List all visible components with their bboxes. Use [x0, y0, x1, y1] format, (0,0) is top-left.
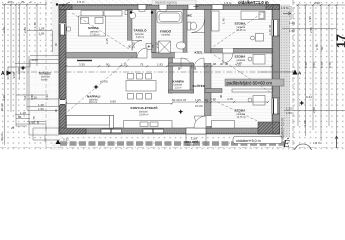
svg-text:28,6 m²: 28,6 m² — [89, 101, 97, 104]
svg-text:60,30: 60,30 — [0, 133, 4, 141]
svg-text:2.40: 2.40 — [304, 62, 308, 68]
svg-text:1.20: 1.20 — [31, 96, 37, 100]
svg-text:6.80: 6.80 — [110, 100, 116, 104]
svg-text:30: 30 — [205, 98, 209, 102]
svg-text:60,20: 60,20 — [0, 103, 4, 111]
svg-text:1,5 %: 1,5 % — [224, 1, 232, 5]
svg-text:1.93: 1.93 — [157, 62, 163, 66]
svg-text:90: 90 — [225, 62, 228, 66]
svg-text:3.70: 3.70 — [2, 27, 6, 33]
svg-text:15×30: 15×30 — [187, 144, 194, 147]
svg-text:burkolat: burkolat — [162, 34, 171, 37]
svg-text:KÖZL.: KÖZL. — [195, 51, 204, 55]
svg-text:SZOBA: SZOBA — [235, 109, 247, 113]
svg-text:1.50: 1.50 — [17, 68, 21, 74]
svg-text:ELŐTÉR: ELŐTÉR — [193, 83, 206, 88]
svg-text:1.30: 1.30 — [45, 94, 49, 100]
svg-text:±0.00: ±0.00 — [195, 104, 203, 108]
svg-text:30: 30 — [220, 62, 223, 66]
svg-text:TÁROLÓ: TÁROLÓ — [134, 28, 148, 33]
svg-text:17,20 m²: 17,20 m² — [90, 34, 100, 37]
svg-text:1.20: 1.20 — [289, 21, 295, 25]
svg-text:90: 90 — [193, 67, 197, 70]
svg-text:2.10: 2.10 — [155, 42, 159, 48]
svg-text:90: 90 — [219, 94, 223, 98]
svg-text:2.70: 2.70 — [315, 44, 319, 50]
svg-text:10,36 m²: 10,36 m² — [237, 29, 247, 32]
svg-text:2.15: 2.15 — [105, 38, 109, 44]
svg-text:1.50: 1.50 — [191, 137, 197, 141]
svg-text:25: 25 — [21, 0, 24, 4]
svg-text:padlásfeljáró 60×60 cm: padlásfeljáró 60×60 cm — [227, 80, 273, 85]
svg-text:90: 90 — [106, 62, 110, 66]
svg-text:4.15: 4.15 — [227, 97, 233, 101]
svg-text:oldalkert=1,0 m: oldalkert=1,0 m — [238, 0, 269, 5]
svg-text:bejárati egység: bejárati egység — [155, 1, 177, 5]
svg-text:1.56: 1.56 — [39, 32, 45, 36]
svg-text:SZOBA: SZOBA — [235, 55, 247, 59]
svg-text:2.80: 2.80 — [23, 27, 27, 33]
svg-text:90: 90 — [268, 24, 272, 28]
svg-text:1.50: 1.50 — [286, 111, 292, 115]
svg-text:75: 75 — [140, 62, 144, 66]
svg-text:8.50: 8.50 — [312, 62, 316, 68]
svg-text:KONYHA-ÉTKEZŐ: KONYHA-ÉTKEZŐ — [131, 105, 159, 110]
svg-text:2.40: 2.40 — [268, 29, 272, 35]
svg-text:2.50: 2.50 — [309, 27, 313, 33]
svg-text:105: 105 — [8, 0, 13, 4]
svg-text:50: 50 — [320, 46, 324, 50]
svg-text:1,5 %: 1,5 % — [313, 141, 321, 145]
svg-text:1.20: 1.20 — [286, 107, 292, 111]
svg-text:1.5 %: 1.5 % — [77, 0, 85, 4]
svg-text:SZOBA: SZOBA — [88, 26, 100, 30]
svg-text:0.34: 0.34 — [306, 95, 312, 99]
svg-text:2.10: 2.10 — [210, 97, 216, 101]
svg-text:1.50: 1.50 — [289, 29, 295, 33]
svg-text:oldalkert+5,0 m: oldalkert+5,0 m — [236, 139, 261, 143]
svg-text:1.50: 1.50 — [38, 107, 44, 111]
svg-text:4.8: 4.8 — [23, 95, 27, 100]
svg-text:12,76 m²: 12,76 m² — [237, 116, 247, 119]
svg-text:1.50: 1.50 — [29, 121, 35, 125]
svg-text:5,29 m²: 5,29 m² — [136, 36, 144, 39]
svg-text:1.55: 1.55 — [308, 16, 312, 22]
svg-text:±0.00: ±0.00 — [100, 80, 108, 84]
svg-text:köztér: köztér — [41, 79, 48, 82]
svg-text:15,84 m²: 15,84 m² — [139, 114, 149, 117]
svg-text:25: 25 — [11, 126, 15, 130]
svg-text:1.28: 1.28 — [39, 27, 45, 31]
svg-text:90: 90 — [177, 67, 181, 70]
svg-text:2.50: 2.50 — [12, 72, 16, 78]
svg-text:1.40: 1.40 — [222, 18, 226, 24]
svg-text:0.32: 0.32 — [63, 138, 69, 142]
svg-text:1.55: 1.55 — [303, 120, 307, 126]
svg-text:2.10: 2.10 — [132, 42, 136, 48]
svg-text:É: É — [282, 138, 290, 150]
svg-text:4.40: 4.40 — [2, 95, 6, 101]
svg-text:4.15: 4.15 — [235, 62, 241, 66]
svg-text:SZOBA: SZOBA — [235, 22, 247, 26]
svg-text:1.5 %: 1.5 % — [281, 6, 289, 10]
svg-text:8.70: 8.70 — [328, 62, 332, 68]
svg-text:6.70: 6.70 — [320, 62, 324, 68]
svg-text:60 40 0.70: 60 40 0.70 — [172, 98, 187, 102]
svg-text:1.15: 1.15 — [121, 62, 127, 66]
svg-text:A: A — [1, 71, 5, 77]
svg-text:1.75: 1.75 — [33, 22, 37, 28]
svg-text:2.58: 2.58 — [314, 1, 320, 5]
svg-text:WC: WC — [187, 14, 193, 18]
svg-text:1,5 m²: 1,5 m² — [175, 87, 182, 90]
svg-text:95: 95 — [36, 120, 40, 124]
svg-text:17: 17 — [335, 34, 345, 48]
svg-text:98: 98 — [213, 62, 216, 66]
svg-text:3.30: 3.30 — [79, 62, 85, 66]
svg-text:95: 95 — [18, 115, 22, 119]
svg-text:2.60: 2.60 — [312, 107, 316, 113]
svg-text:-0.02: -0.02 — [31, 58, 38, 62]
svg-text:1.05: 1.05 — [195, 98, 201, 102]
